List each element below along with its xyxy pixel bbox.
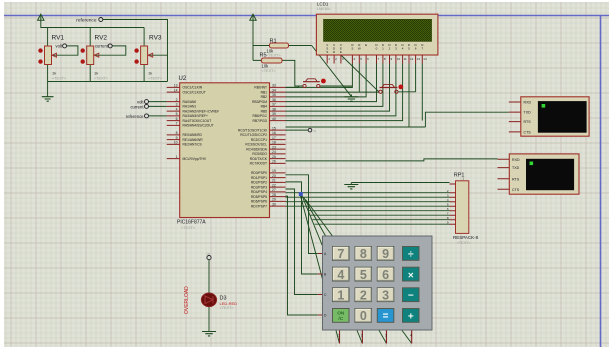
svg-text:RXD: RXD [512,158,520,162]
key ON/C [333,309,350,323]
svg-text:23: 23 [272,145,276,149]
svg-text:18: 18 [272,141,276,145]
svg-text:3: 3 [176,103,178,107]
svg-text:RB0/INT: RB0/INT [254,86,267,90]
svg-text:RA1/AN1: RA1/AN1 [183,105,197,109]
key digits [337,247,389,323]
wire: volt terminal to pin RA0 [148,101,166,103]
left pin names [183,86,220,161]
svg-text:TXD: TXD [524,111,532,115]
button 2 [379,85,403,94]
wire: chip RD5 to RP1 pin3 [286,196,450,198]
wire: diagonal R1 to ground G2 [312,46,352,97]
wire: diagonal LCD VEE to button2 left [341,55,379,92]
right pin stubs [270,87,286,206]
wire: RV2 wiper to current terminal [94,46,126,55]
node RC0 terminal [308,128,316,133]
svg-text:current: current [130,104,144,109]
svg-text:4: 4 [337,268,344,282]
svg-text:1: 1 [337,289,344,303]
svg-text:13: 13 [174,84,178,88]
wire: LCD RW to chip RB1 row [358,64,360,93]
key mul [403,267,420,281]
svg-text:CTS: CTS [524,131,532,135]
svg-text:3: 3 [385,334,387,338]
sheet border blue right line [600,15,602,347]
virtual terminal VT1 [509,97,589,136]
ground G2 (below button1) [344,95,358,102]
key 4 [333,267,350,281]
resistor pack RP1 [447,173,479,245]
svg-text:RB3/PGM: RB3/PGM [252,100,267,104]
wire: diagonal to keypad col2 [302,195,363,344]
svg-text:<TEXT>: <TEXT> [148,76,163,80]
svg-text:2: 2 [361,334,363,338]
wire: LCD D1 to chip RB4 row [286,64,383,107]
svg-text:2: 2 [176,98,178,102]
wire: chip RD6 to RP1 pin4 [286,201,450,203]
svg-text:LM016L: LM016L [317,7,331,11]
svg-text:37: 37 [272,103,276,107]
potentiometer RV3 [134,35,163,81]
wire: chip RC6 to VT2 RXD [286,159,498,161]
key minus [403,288,420,302]
svg-text:RC0/T1OSO/T1CKI: RC0/T1OSO/T1CKI [238,128,267,132]
svg-text:RB1: RB1 [261,90,268,94]
svg-text:RD6/PSP6: RD6/PSP6 [251,200,267,204]
svg-text:38: 38 [272,107,276,111]
svg-text:RE0/AN5/RD: RE0/AN5/RD [183,133,203,137]
svg-text:OSC1/CLKIN: OSC1/CLKIN [183,86,203,90]
svg-text:9: 9 [176,136,178,140]
wire: LCD D2 to chip RB5 row [286,64,390,112]
wire: diagonal to keypad col4 [306,200,412,344]
LCD pin numbers [328,57,427,61]
svg-text:21: 21 [272,179,276,183]
left pin numbers [174,84,178,159]
key plus [403,309,420,323]
svg-text:RTS: RTS [524,120,532,124]
svg-text:RC6/TX/CK: RC6/TX/CK [250,157,268,161]
wire: chip RD4 to RP1 pin2 [286,192,450,194]
svg-text:=: = [383,311,389,322]
wire: chip RD1 to keypad row B [286,182,318,274]
svg-text:current: current [95,44,109,49]
svg-text:/C: /C [338,316,343,322]
ground G3 (RP1 pin1) [344,185,358,189]
potentiometer RV2 [81,35,109,81]
svg-text:RA4/T0CKI/C1OUT: RA4/T0CKI/C1OUT [183,119,212,123]
wire: LCD E to chip RB2 row [286,64,367,97]
svg-text:4: 4 [410,334,412,338]
wire: diagonal to keypad col1 [300,192,340,344]
svg-text:<TEXT>: <TEXT> [94,76,109,80]
svg-text:RB2: RB2 [261,95,268,99]
wire: keypad col1 diag to RP1 pin6 [309,210,450,212]
microcontroller U2 PIC16F877A [167,76,286,230]
svg-text:÷: ÷ [408,250,414,261]
svg-text:<TEXT>: <TEXT> [457,241,472,245]
ground G4 (LED) [202,332,216,336]
svg-text:26: 26 [272,160,276,164]
key 3 [377,288,394,302]
svg-text:RB7/PGD: RB7/PGD [253,119,268,123]
LED D3 [184,286,237,314]
resistor R1 [267,39,289,54]
LCD1 LM016L display [316,2,438,64]
wire: LCD D0 to chip RB3 row [286,64,377,102]
wire: chip RD0 to keypad row A [286,175,318,254]
svg-text:28: 28 [272,193,276,197]
svg-text:2: 2 [360,289,367,303]
power arrow P1 [38,14,44,20]
svg-text:RA3/AN3/VREF+: RA3/AN3/VREF+ [183,114,208,118]
svg-text:RC2/CCP1: RC2/CCP1 [251,138,267,142]
svg-text:1k: 1k [148,71,152,76]
svg-text:RV2: RV2 [95,35,108,42]
svg-text:17: 17 [272,136,276,140]
right pin names [238,86,268,209]
svg-text:RC4/SDI/SDA: RC4/SDI/SDA [246,147,268,151]
key 5 [355,267,372,281]
svg-text:reference: reference [76,18,97,24]
svg-text:5: 5 [360,268,367,282]
svg-text:7: 7 [337,247,344,261]
svg-text:6: 6 [382,268,389,282]
potentiometer RV1 [38,35,67,81]
node reference (chip side) [126,114,149,119]
key div [403,247,420,261]
wire: power arrow2 stem to R1 and R5 [253,21,270,61]
wire: reference label to RV3 wiper [103,20,168,82]
svg-text:36: 36 [272,98,276,102]
wire: chip RD2 to keypad row C [286,189,318,295]
node reference (top label terminal) [76,18,103,24]
svg-text:reference: reference [126,114,144,119]
svg-text:volt: volt [55,44,62,49]
svg-text:RB6/PGC: RB6/PGC [253,114,268,118]
wire: reference terminal to pin RA3 [148,115,166,117]
wire: power rail top-left to pots [41,21,144,46]
svg-text:39: 39 [272,112,276,116]
svg-text:U2: U2 [179,76,187,82]
svg-text:RD0/PSP0: RD0/PSP0 [251,171,267,175]
svg-text:25: 25 [272,155,276,159]
operator symbols [383,250,414,323]
resistor R5 [260,53,283,73]
svg-text:MCLR/Vpp/THV: MCLR/Vpp/THV [183,157,207,161]
wire: LCD D4 to chip RB7 row [286,64,403,121]
wire: button1 right to LCD RS vertical [320,86,352,87]
svg-text:34: 34 [272,88,276,92]
svg-text:RC7/RX/DT: RC7/RX/DT [250,162,267,166]
svg-text:×: × [408,270,414,281]
svg-text:10: 10 [397,57,401,61]
svg-text:12: 12 [410,57,414,61]
svg-text:RC3/SCK/SCL: RC3/SCK/SCL [245,143,267,147]
wire: LCD RS to chip RB0 row [286,64,353,88]
wire: current terminal to pin RA1 [148,105,166,107]
svg-text:CTS: CTS [512,188,520,192]
wire: LCD D5 down to RC1 long line [408,64,410,128]
svg-text:RD2/PSP2: RD2/PSP2 [251,181,267,185]
svg-text:−: − [408,291,414,302]
power arrow P2 [250,14,256,20]
LED terminal node [206,252,211,260]
svg-text:RD4/PSP4: RD4/PSP4 [251,190,267,194]
wire: keypad col4 diag to RP1 pin9 [315,223,450,225]
svg-text:<TEXT>: <TEXT> [52,76,67,80]
LCD pin labels [0,0,1,1]
key 8 [355,247,372,261]
key 9 [377,247,394,261]
svg-text:RB5: RB5 [261,109,268,113]
svg-text:RC5/SDO: RC5/SDO [252,152,267,156]
svg-text:10: 10 [174,141,178,145]
svg-text:33: 33 [272,84,276,88]
svg-text:RC1/T1OSI/CCP2: RC1/T1OSI/CCP2 [240,133,267,137]
svg-text:RA5/AN4/SS/C2OUT: RA5/AN4/SS/C2OUT [183,124,214,128]
svg-text:8: 8 [360,247,367,261]
svg-text:24: 24 [272,150,276,154]
wire: keypad col2 diag to RP1 pin7 [311,214,450,216]
svg-text:RD5/PSP5: RD5/PSP5 [251,195,267,199]
wire: chip RD7 to RP1 pin5 [286,205,450,207]
wire: button2 right to D6 vertical [398,91,415,93]
svg-text:27: 27 [272,188,276,192]
svg-text:11: 11 [404,57,407,61]
svg-text:S: S [351,47,353,51]
key 6 [377,267,394,281]
svg-text:PIC16F877A: PIC16F877A [177,220,206,226]
junction blue dot [299,192,303,196]
wire: LCD D6 down to button2 line [415,64,417,92]
wire: chip RB1 to button2 left [286,91,379,93]
svg-text:<TEXT>: <TEXT> [220,306,235,310]
wire: chip RD3 to keypad row D [286,196,318,315]
right pin numbers [272,84,276,207]
key 1 [333,288,350,302]
wire: RV1 wiper to volt terminal [52,46,78,55]
LCD pin stubs [327,55,422,64]
svg-text:RD3/PSP3: RD3/PSP3 [251,185,267,189]
ground G1 (pots) [42,97,54,102]
svg-text:22: 22 [272,183,276,187]
sheet border blue top line [4,15,609,17]
wire: R5 right down to button1 left [282,60,303,86]
node current (RV2 wiper label) [95,44,112,49]
svg-text:RD1/PSP1: RD1/PSP1 [251,176,267,180]
ON/C label [337,311,345,323]
key 2 [355,288,372,302]
svg-text:8: 8 [176,131,178,135]
svg-text:RE1/AN6/WR: RE1/AN6/WR [183,138,204,142]
left pin stubs [167,87,180,158]
wire: pot bottoms to ground rail [48,65,168,97]
svg-text:RV1: RV1 [52,35,65,42]
svg-text:OVERLOAD: OVERLOAD [184,286,190,314]
svg-text:RB4: RB4 [261,105,268,109]
wire: ground G3 to RP1 pin1 [351,183,449,185]
svg-text:RXD: RXD [524,101,532,105]
keypad buttons [333,247,420,324]
wire: R1 right to diagonal node [289,45,312,47]
virtual terminal VT2 [498,154,580,194]
wire: LCD D3 to chip RB6 row [286,64,396,116]
key eq [377,309,394,323]
key 0 [355,309,372,323]
wire: chip RC0 to terminal [286,129,309,131]
key bevels light [333,247,393,321]
svg-text:<TEXT>: <TEXT> [267,53,282,57]
wire: keypad col3 diag to RP1 pin8 [313,219,450,221]
svg-text:5: 5 [176,112,178,116]
svg-text:1: 1 [176,155,178,159]
node volt (chip side) [137,100,149,105]
wire: chip RB0 to button1 [286,86,303,87]
keypad KEYPAD-CALCULATOR [323,236,433,338]
svg-text:1k: 1k [52,71,56,76]
svg-text:+: + [408,312,414,323]
svg-text:9: 9 [382,247,389,261]
svg-text:30: 30 [272,202,276,206]
svg-text:RV3: RV3 [149,35,162,42]
svg-text:4: 4 [176,107,178,111]
svg-text:RTS: RTS [512,177,520,181]
svg-text:40: 40 [272,117,276,121]
svg-text:7: 7 [176,122,178,126]
svg-text:W: W [358,47,361,51]
svg-text:RE2/AN7/CS: RE2/AN7/CS [183,143,203,147]
wire: LED terminal down through LED to ground [208,260,210,332]
wire: chip RC1 long line to VT1 TXD vertical [286,112,509,127]
svg-text:0: 0 [360,309,367,323]
svg-text:OSC2/CLKOUT: OSC2/CLKOUT [183,90,206,94]
svg-text:16: 16 [272,131,276,135]
svg-text:6: 6 [176,117,178,121]
svg-text:14: 14 [423,57,427,61]
svg-text:15: 15 [272,126,276,130]
keypad left pin stubs [318,254,323,316]
wire: diagonal to keypad col3 [304,197,387,344]
key 7 [333,247,350,261]
svg-text:14: 14 [174,88,178,92]
svg-text:RA0/AN0: RA0/AN0 [183,100,197,104]
svg-text:TXD: TXD [512,166,520,170]
svg-text:20: 20 [272,174,276,178]
svg-text:19: 19 [272,169,276,173]
svg-text:LCD1: LCD1 [317,2,329,7]
svg-text:13: 13 [417,57,421,61]
svg-text:RD7/PSP7: RD7/PSP7 [251,204,267,208]
svg-text:E: E [365,43,367,47]
svg-text:RESPACK-8: RESPACK-8 [453,235,479,240]
svg-text:3: 3 [382,289,389,303]
svg-text:1k: 1k [94,71,98,76]
svg-text:<TEXT>: <TEXT> [181,226,196,230]
node volt (RV1 wiper label) [55,44,66,49]
svg-text:29: 29 [272,198,276,202]
svg-text:1: 1 [338,334,340,338]
button 1 [303,79,326,88]
svg-text:10k: 10k [262,63,270,68]
svg-text:<TEXT>: <TEXT> [262,69,277,73]
keypad bottom pin stubs (drawn before keypad body) [340,330,412,344]
svg-text:ON: ON [337,311,345,317]
svg-text:S: S [326,50,328,54]
wire: LCD D7 down to RB7 row [421,64,423,121]
svg-text:RA2/AN2/VREF-/CVREF: RA2/AN2/VREF-/CVREF [183,109,220,113]
svg-text:35: 35 [272,93,276,97]
svg-text:E: E [340,50,342,54]
node current (chip side) [130,104,148,109]
